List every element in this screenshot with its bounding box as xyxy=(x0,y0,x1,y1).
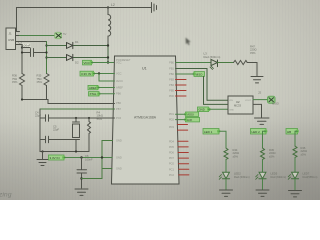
svg-text:ATMEGA168A: ATMEGA168A xyxy=(134,116,157,120)
ground xyxy=(289,191,302,197)
svg-text:PD1: PD1 xyxy=(169,112,175,116)
svg-text:PD4: PD4 xyxy=(169,139,175,143)
svg-text:PB5: PB5 xyxy=(169,89,174,93)
net label GND xyxy=(198,107,211,112)
ground xyxy=(220,190,233,196)
svg-text:SCK: SCK xyxy=(187,118,193,122)
svg-text:PD3: PD3 xyxy=(169,125,175,129)
svg-text:PD0: PD0 xyxy=(169,94,175,98)
svg-text:PC1: PC1 xyxy=(169,167,175,171)
wire to gnd xyxy=(253,104,262,118)
wire XTAL2 xyxy=(40,108,115,110)
junction xyxy=(80,156,82,158)
wire xyxy=(295,131,298,146)
LED LED2 xyxy=(219,172,250,180)
header pin symbol (green X) xyxy=(268,96,279,105)
node L2 top xyxy=(107,6,109,8)
svg-text:AREF: AREF xyxy=(89,86,97,90)
wire xyxy=(218,62,234,64)
net label 3.3V IN xyxy=(49,155,66,160)
svg-text:PC6: PC6 xyxy=(116,116,122,120)
svg-text:PD7: PD7 xyxy=(169,156,175,160)
svg-text:VOUT: VOUT xyxy=(245,100,252,102)
wire pin2 down to regulator xyxy=(176,69,208,101)
svg-text:PD6: PD6 xyxy=(169,151,175,155)
crystal Y1 xyxy=(73,118,80,152)
svg-text:U2: U2 xyxy=(236,100,240,104)
wire xyxy=(98,87,115,89)
svg-text:5V: 5V xyxy=(63,32,67,36)
pin stubs xyxy=(16,32,20,45)
svg-text:Red(585nm): Red(585nm) xyxy=(303,175,318,179)
net label MOSI xyxy=(184,112,198,117)
wire MISO down to regulator pin2 xyxy=(204,76,229,104)
left pin name texts xyxy=(116,61,123,171)
wire down to AVCC xyxy=(99,74,115,82)
wire xyxy=(262,160,264,173)
wire D1 out xyxy=(74,45,109,47)
svg-text:PC2: PC2 xyxy=(169,173,175,177)
net label LED2 xyxy=(251,129,268,135)
mouse cursor xyxy=(186,38,191,46)
svg-text:±5%: ±5% xyxy=(37,80,43,84)
svg-text:22pF: 22pF xyxy=(53,128,59,132)
capacitor C6 xyxy=(77,170,87,173)
LED D3 (L3) xyxy=(204,52,221,70)
inductor L2 xyxy=(108,8,111,45)
wire xyxy=(99,93,115,95)
svg-text:PB6: PB6 xyxy=(116,92,121,96)
svg-text:zing: zing xyxy=(0,192,12,199)
wire xyxy=(102,168,112,170)
svg-text:±5%: ±5% xyxy=(301,152,307,156)
svg-text:PB4: PB4 xyxy=(169,83,174,87)
wire pin2 to header xyxy=(20,35,55,37)
wire vertical node xyxy=(107,44,109,63)
svg-text:PB3: PB3 xyxy=(169,78,174,82)
wire bottoms xyxy=(21,86,23,100)
svg-text:USB: USB xyxy=(8,38,14,42)
resistor R46 xyxy=(293,146,307,158)
svg-text:PB2: PB2 xyxy=(169,72,174,76)
wire vertical left xyxy=(21,45,23,74)
wire down xyxy=(81,173,83,188)
svg-text:L2: L2 xyxy=(111,3,115,7)
wire vertical right xyxy=(46,42,48,74)
wire short xyxy=(22,47,30,49)
svg-text:PB7: PB7 xyxy=(116,107,121,111)
wire to VCC pin xyxy=(94,73,115,75)
svg-text:3.3V IN: 3.3V IN xyxy=(81,72,91,76)
wire down xyxy=(81,158,83,170)
capacitor C7 xyxy=(22,49,47,57)
svg-text:PB6: PB6 xyxy=(116,101,121,105)
svg-text:GND: GND xyxy=(229,110,234,112)
svg-text:VCC: VCC xyxy=(116,72,122,76)
wire xyxy=(263,131,267,148)
wire to IC gnd pins xyxy=(82,141,113,179)
svg-text:PD5: PD5 xyxy=(169,145,175,149)
svg-text:±5%: ±5% xyxy=(97,117,103,121)
red stubs group2 xyxy=(177,125,189,175)
wire bottom rail xyxy=(22,100,115,104)
connector J1 xyxy=(6,28,16,50)
svg-text:HB: HB xyxy=(287,130,291,134)
net label AREF xyxy=(88,85,100,90)
svg-text:MC33: MC33 xyxy=(234,104,241,108)
wire xyxy=(92,62,115,64)
svg-text:PB1: PB1 xyxy=(169,67,174,71)
svg-text:Red (633nm): Red (633nm) xyxy=(204,55,221,59)
junction xyxy=(21,98,23,100)
wire xyxy=(20,44,23,46)
svg-text:J1: J1 xyxy=(9,32,13,36)
svg-text:±5%: ±5% xyxy=(12,80,18,84)
wire xyxy=(176,73,195,75)
svg-text:GND: GND xyxy=(116,167,122,171)
left vertical xyxy=(39,109,41,152)
wire to IC xyxy=(64,157,112,159)
junctions on that wire xyxy=(75,117,77,119)
bottom rail xyxy=(40,151,89,153)
wire xyxy=(20,41,47,43)
wire to regulator pin1 xyxy=(207,99,228,101)
ground xyxy=(256,190,269,196)
svg-text:MISO: MISO xyxy=(195,72,203,76)
junction xyxy=(98,72,100,74)
svg-text:VCC: VCC xyxy=(116,61,122,65)
svg-text:D1: D1 xyxy=(75,40,79,44)
junctions xyxy=(107,44,109,63)
red stubs group1 xyxy=(176,80,187,97)
svg-text:3.3V IN: 3.3V IN xyxy=(50,156,60,160)
svg-text:J2: J2 xyxy=(258,91,261,95)
svg-text:LED 1: LED 1 xyxy=(204,130,213,134)
svg-text:PD2: PD2 xyxy=(169,118,175,122)
junction xyxy=(41,150,43,152)
svg-text:AVCC: AVCC xyxy=(116,79,123,83)
svg-text:D2: D2 xyxy=(75,61,79,65)
junctions xyxy=(21,44,48,58)
svg-text:PC0: PC0 xyxy=(169,162,175,166)
svg-text:±5%: ±5% xyxy=(269,154,275,158)
resistor R35 xyxy=(37,74,50,86)
svg-text:22pF: 22pF xyxy=(35,114,41,118)
capacitor C4 xyxy=(40,115,115,121)
junction xyxy=(101,156,103,158)
header pin symbol (green X) xyxy=(55,32,67,39)
wire pin to LED xyxy=(176,62,212,64)
wire to regulator pin3 xyxy=(209,108,229,110)
ground xyxy=(37,152,48,166)
svg-text:XTAL: XTAL xyxy=(90,92,97,96)
svg-text:100nF: 100nF xyxy=(85,157,93,161)
capacitor C5 xyxy=(40,136,76,142)
net label 3.3V IN xyxy=(80,71,95,76)
right pin name texts xyxy=(169,61,175,177)
LED LED5 xyxy=(256,172,287,180)
net label XTAL xyxy=(89,92,101,97)
svg-text:GND: GND xyxy=(116,156,122,160)
svg-text:LED 2: LED 2 xyxy=(252,130,261,134)
resistor R45 xyxy=(261,148,276,160)
resistor R4 xyxy=(88,111,103,136)
ground xyxy=(75,189,88,195)
svg-text:VIN: VIN xyxy=(229,100,233,102)
net label LED1 xyxy=(203,129,220,135)
wire to gnd xyxy=(247,63,257,77)
svg-text:±5%: ±5% xyxy=(250,51,256,55)
ground (rotated, top right) xyxy=(150,3,157,13)
wire xyxy=(225,179,227,190)
svg-text:Red (633nm): Red (633nm) xyxy=(234,175,250,179)
svg-text:MISO: MISO xyxy=(272,102,279,106)
svg-text:U1: U1 xyxy=(142,67,147,71)
wire xyxy=(17,8,151,32)
wire D2 out xyxy=(74,57,109,59)
wire xyxy=(225,160,227,173)
wire xyxy=(294,179,296,191)
wire xyxy=(262,179,264,190)
wire to diode D1 xyxy=(47,45,67,47)
resistor R47 xyxy=(234,45,257,65)
net label MISO xyxy=(193,72,205,77)
svg-text:AREF: AREF xyxy=(116,86,123,90)
svg-text:MOSI: MOSI xyxy=(187,113,194,117)
svg-text:±5%: ±5% xyxy=(233,154,239,158)
ground xyxy=(255,118,270,124)
svg-text:GND: GND xyxy=(116,139,122,143)
ground xyxy=(251,77,263,83)
net label HB xyxy=(286,129,299,135)
wire out right xyxy=(253,99,268,101)
junction xyxy=(80,177,82,179)
svg-text:GND: GND xyxy=(199,108,205,112)
wire xyxy=(294,158,296,173)
svg-text:VCC: VCC xyxy=(84,61,91,65)
LED LED7 xyxy=(288,172,317,180)
resistor R36 xyxy=(12,74,25,86)
wire to diode D2 xyxy=(47,57,67,59)
wire xyxy=(219,131,226,148)
resistor R44 xyxy=(224,148,239,160)
svg-text:PB0: PB0 xyxy=(169,61,174,65)
net label SCK xyxy=(184,117,199,122)
svg-text:Red (633nm): Red (633nm) xyxy=(271,175,287,179)
